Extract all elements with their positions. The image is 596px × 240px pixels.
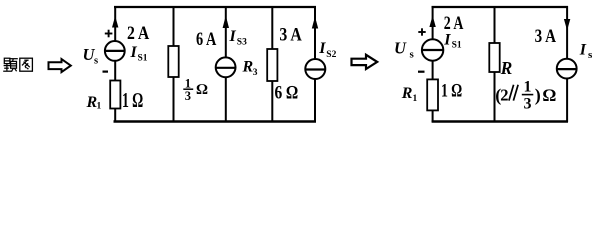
current source (circle with bar) R3 branch: [216, 57, 236, 77]
svg-text:3 A: 3 A: [535, 26, 557, 47]
current source IS1 (circle with bar): [105, 41, 125, 61]
resistor R (right): [489, 43, 499, 72]
arrow 2A right (up): [429, 16, 435, 28]
svg-text:I: I: [443, 32, 451, 49]
svg-text:I: I: [318, 40, 326, 57]
svg-text:6 Ω: 6 Ω: [275, 83, 299, 104]
label 题图 (problem-figure caption, drawn strokes): [3, 58, 18, 71]
svg-text:2 A: 2 A: [127, 23, 150, 44]
svg-text:s: s: [588, 49, 593, 61]
svg-text:1: 1: [97, 102, 102, 112]
wire branch1 middle: [114, 60, 116, 80]
svg-text:3: 3: [253, 68, 258, 78]
svg-text:2: 2: [500, 86, 508, 105]
label + (right): [418, 28, 425, 35]
svg-text:6 A: 6 A: [196, 29, 216, 50]
svg-text:I: I: [579, 42, 587, 59]
wire right-branch3 lower: [566, 78, 568, 122]
resistor R1 (right): [427, 79, 438, 110]
arrow IS2 (up): [312, 17, 318, 29]
block arrow 2: [352, 55, 378, 69]
svg-text:I: I: [130, 44, 138, 61]
label 图 (second caption char): [20, 58, 33, 71]
svg-text:1: 1: [413, 94, 418, 104]
wire right-branch3 upper (right edge): [566, 6, 568, 59]
wire right-branch1 lower: [432, 110, 434, 122]
bottom rail (right): [432, 120, 568, 122]
wire branch4 upper: [271, 7, 273, 49]
svg-text:R: R: [242, 59, 254, 76]
svg-text:S2: S2: [326, 50, 336, 60]
label 1/3 ohm (fraction): [183, 77, 208, 103]
svg-text:S1: S1: [138, 54, 148, 64]
arrow 2A (up): [112, 16, 118, 28]
svg-text:U: U: [394, 39, 407, 58]
wire branch5 lower: [314, 79, 316, 123]
current source IS2 (circle with bar): [305, 59, 325, 79]
svg-text:S3: S3: [237, 38, 247, 48]
current source IS1 right (circle with bar): [422, 39, 443, 60]
svg-text:s: s: [94, 56, 98, 67]
svg-text:R: R: [500, 58, 513, 78]
svg-text:S1: S1: [452, 40, 462, 50]
wire branch1 upper: [114, 6, 116, 42]
svg-text:I: I: [229, 28, 237, 45]
resistor R1 (left): [110, 81, 120, 109]
svg-text:3: 3: [524, 96, 532, 113]
block arrow 1: [49, 59, 71, 72]
svg-text:Ω: Ω: [543, 85, 556, 105]
wire branch5 (right edge) upper: [314, 6, 316, 60]
wire right-branch2 upper: [494, 7, 496, 43]
current source Is (circle with bar): [557, 59, 577, 79]
svg-text:s: s: [410, 48, 415, 60]
svg-text:Ω: Ω: [196, 82, 208, 98]
wire branch2 upper: [173, 7, 175, 46]
wire right-branch1 middle: [432, 60, 434, 79]
bottom rail: [114, 120, 317, 122]
svg-text:3 A: 3 A: [279, 24, 302, 45]
wire branch4 lower: [271, 81, 273, 122]
top rail (right): [432, 6, 568, 8]
top rail: [114, 6, 316, 8]
arrow 3A right (down): [564, 19, 570, 31]
resistor 6 ohm: [267, 49, 277, 81]
label - (minus, right): [418, 71, 425, 73]
svg-text:): ): [535, 85, 541, 106]
wire branch3 upper: [225, 7, 227, 58]
wire right-branch2 lower: [494, 72, 496, 122]
arrow IS3 (up): [223, 16, 229, 29]
label - (minus, left): [103, 70, 109, 72]
svg-text:1 Ω: 1 Ω: [441, 80, 462, 101]
label (2 parallel 1/3) ohm: [495, 78, 556, 112]
wire right-branch1 upper: [432, 6, 434, 40]
wire branch1 lower: [114, 109, 116, 123]
label + (left): [105, 30, 113, 38]
resistor 1/3 ohm: [168, 46, 178, 77]
wire branch3 lower: [225, 77, 227, 122]
svg-text:1: 1: [524, 78, 532, 95]
wire branch2 lower: [173, 77, 175, 122]
svg-text:R: R: [401, 85, 413, 102]
svg-text:3: 3: [185, 89, 191, 103]
svg-text:1 Ω: 1 Ω: [122, 88, 143, 112]
